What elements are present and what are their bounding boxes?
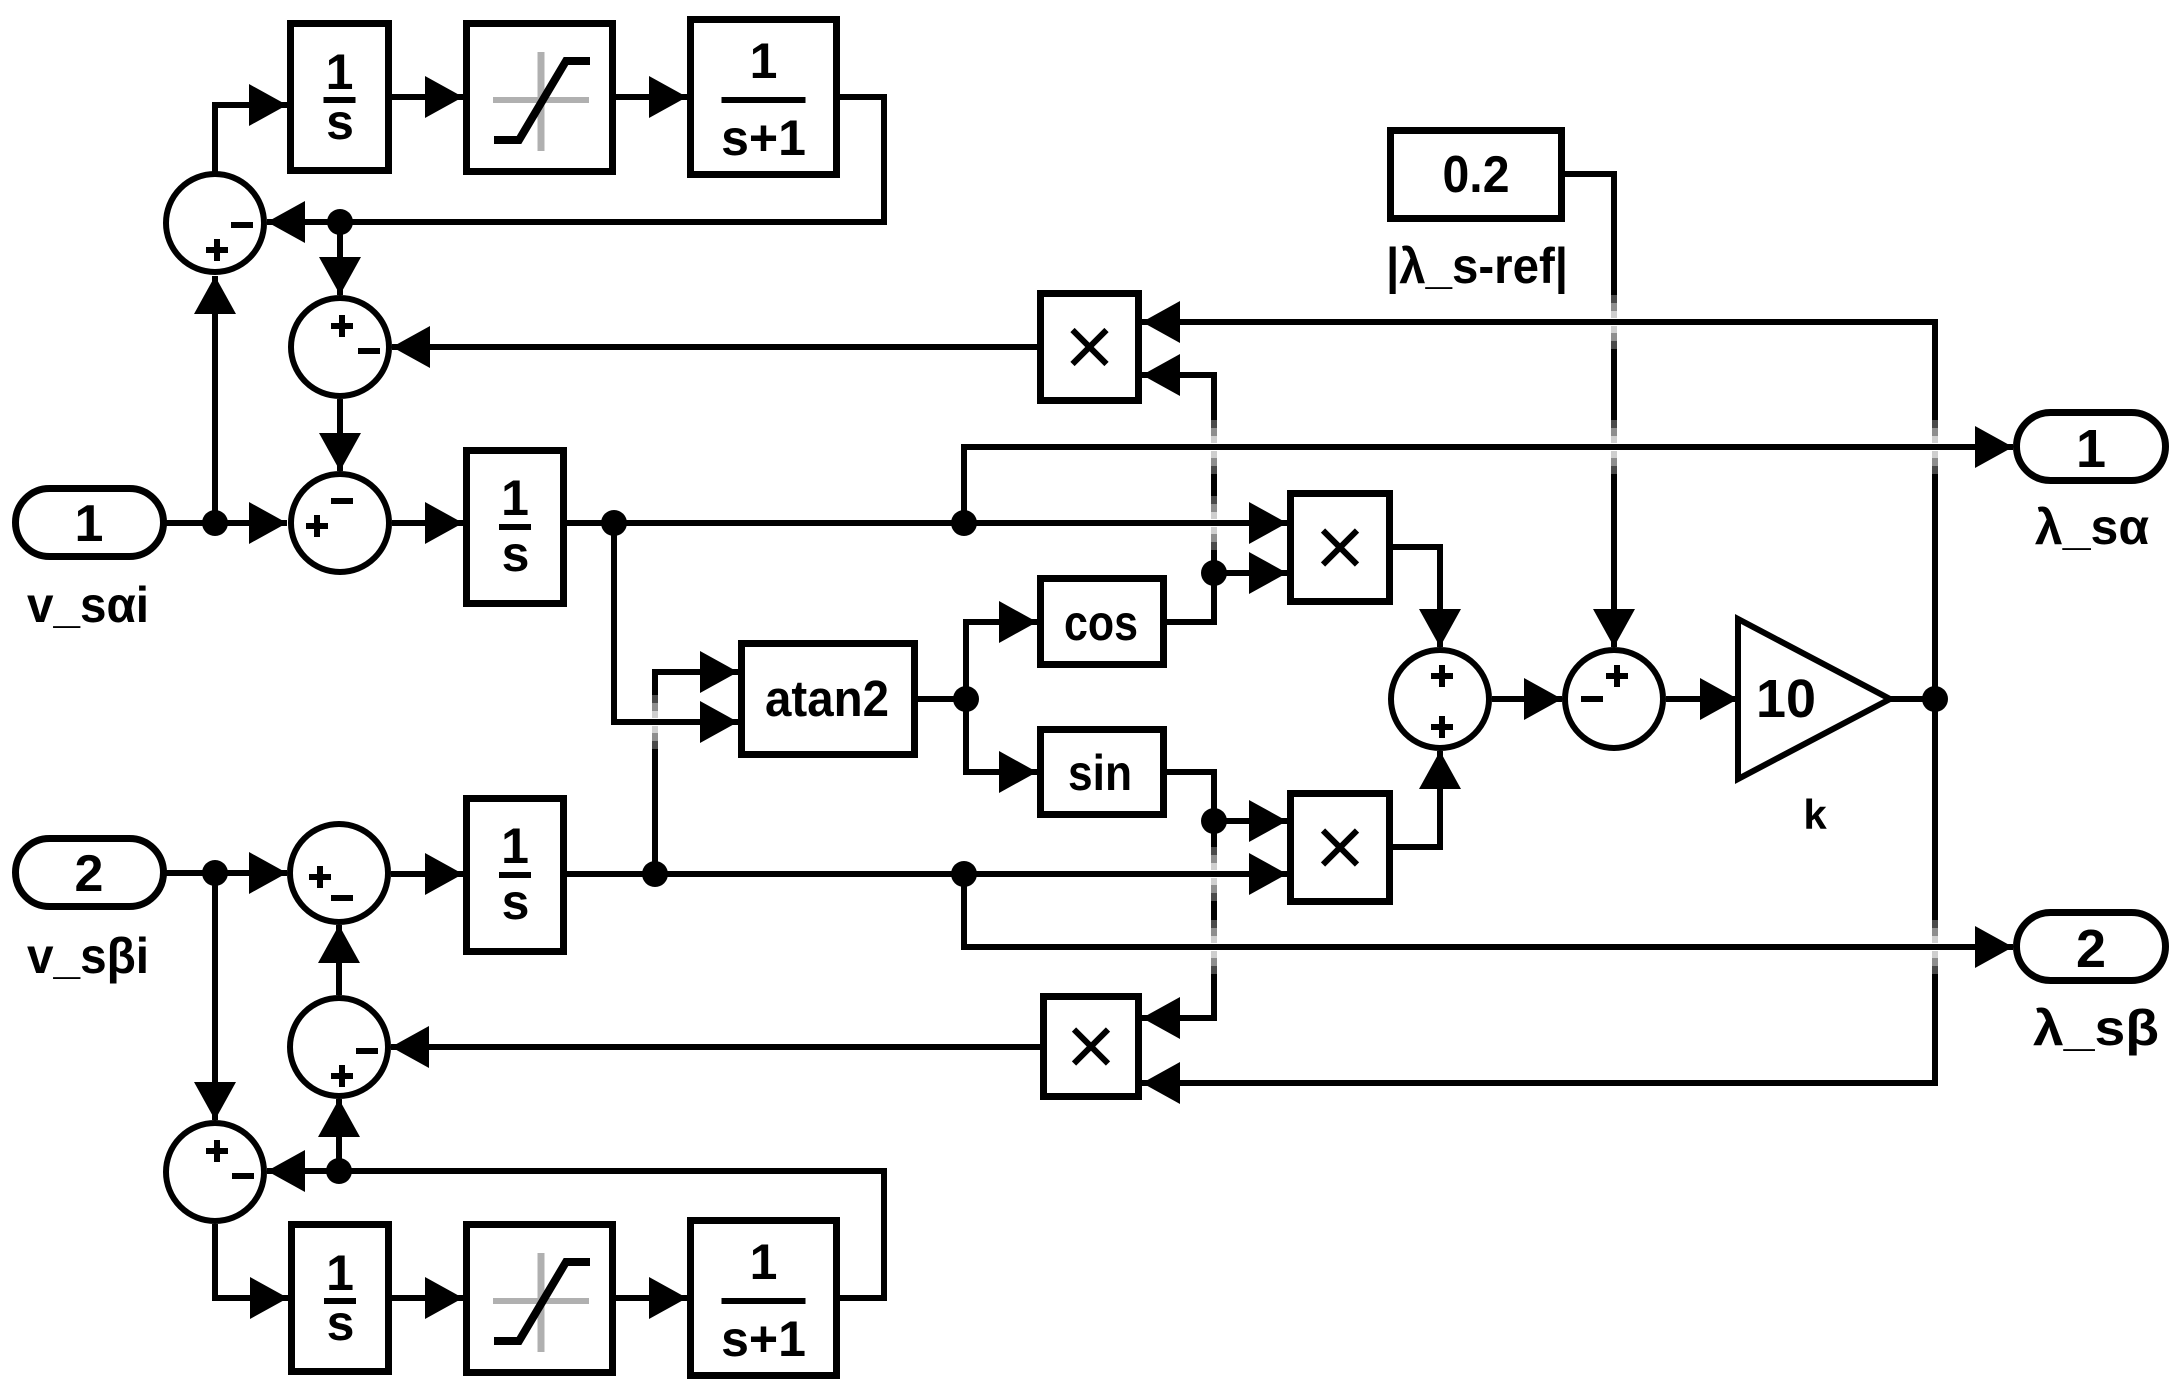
integrator block 1/s (top-left offset loop) <box>291 24 389 171</box>
wire atan2 out <box>918 696 966 702</box>
junction dot sin net <box>1201 808 1227 834</box>
label lambda_sb <box>2033 1000 2159 1056</box>
label k <box>1803 791 1827 838</box>
wire feedback branch to S2 <box>319 222 361 295</box>
wire integrator beta out <box>567 853 1287 895</box>
svg-text:0.2: 0.2 <box>1443 146 1510 204</box>
junction dot beta 2 <box>951 861 977 887</box>
junction dot atan2 <box>953 686 979 712</box>
svg-text:1: 1 <box>2076 419 2106 479</box>
wire bus to P1 in1 <box>1142 301 1935 343</box>
wire saturation to 1/(s+1) (bottom) <box>616 1277 687 1319</box>
wire input1 to S3 <box>160 502 287 544</box>
wire input2 branch down to S8 <box>194 873 236 1120</box>
junction dot gain out <box>1922 686 1948 712</box>
wire S7 to S6 <box>318 925 360 995</box>
svg-text:1: 1 <box>501 470 529 526</box>
integrator block 1/s (beta) <box>467 799 564 952</box>
saturation block (bottom) <box>467 1225 613 1373</box>
wire lambda_sa to output 1 <box>964 426 2013 523</box>
wire sin out net <box>1142 772 1287 1039</box>
wire S2 to S3 <box>319 399 361 471</box>
sum S6 (+-) beta <box>290 824 388 922</box>
junction dot alpha 2 <box>951 510 977 536</box>
svg-text:s: s <box>502 874 530 930</box>
integrator block 1/s (alpha) <box>467 451 564 604</box>
output port 2 oval <box>2017 913 2166 981</box>
sin block <box>1041 730 1164 815</box>
wire feedback 1/(s+1) to S1 <box>267 97 884 243</box>
wire 1/s to saturation (top) <box>392 76 463 118</box>
sum S5 (-+) <box>1565 650 1663 748</box>
wire cos out net <box>1142 354 1287 622</box>
svg-text:10: 10 <box>1756 669 1816 729</box>
svg-text:s: s <box>326 94 354 150</box>
junction dot feedback top <box>327 209 353 235</box>
gain block 10 (k) <box>1738 619 1890 779</box>
sum S2 (+-) <box>291 298 389 396</box>
junction dot input1 <box>202 510 228 536</box>
wire lambda_sb to output 2 <box>964 874 2013 968</box>
transfer fcn block 1/(s+1) (top) <box>691 20 837 175</box>
svg-text:1: 1 <box>750 1234 778 1290</box>
product block P4 (mirrored, bottom) <box>1044 997 1139 1097</box>
label v_sbi <box>27 928 149 984</box>
svg-text:s+1: s+1 <box>721 1311 806 1367</box>
svg-text:sin: sin <box>1068 745 1132 801</box>
wire S5 to gain <box>1666 678 1738 720</box>
label lambda_s-ref <box>1386 238 1568 295</box>
wire saturation to 1/(s+1) (top) <box>616 76 687 118</box>
sum S3 (+-) <box>291 474 389 572</box>
wire atan2 to sin <box>966 699 1037 793</box>
wire integrator alpha out <box>567 502 1287 544</box>
svg-text:1: 1 <box>326 44 354 100</box>
svg-text:v_sβi: v_sβi <box>27 928 149 984</box>
wire feedback branch to S7 <box>318 1099 360 1171</box>
sum S1 (+-) <box>166 174 264 272</box>
svg-text:|λ_s-ref|: |λ_s-ref| <box>1386 238 1568 295</box>
product block P1 (mirrored, top) <box>1041 294 1139 401</box>
svg-text:1: 1 <box>75 495 104 553</box>
output port 1 oval <box>2017 413 2166 481</box>
wire bus right vertical <box>1932 322 1938 1083</box>
svg-text:v_sαi: v_sαi <box>27 577 149 633</box>
wire P1 out to S2 <box>392 326 1037 368</box>
svg-text:1: 1 <box>326 1245 354 1301</box>
sum S7 (-+) beta <box>290 998 388 1096</box>
junction dot cos net <box>1201 560 1227 586</box>
junction dot input2 <box>202 860 228 886</box>
label v_sai <box>27 577 149 633</box>
sum S4 (++) <box>1391 650 1489 748</box>
svg-text:s: s <box>327 1295 355 1351</box>
svg-text:λ_sβ: λ_sβ <box>2033 1000 2159 1056</box>
wire bus to P4 in2 <box>1142 1062 1935 1104</box>
wire 0.2 to S5 <box>1565 174 1635 647</box>
svg-text:atan2: atan2 <box>765 670 889 727</box>
junction dot alpha 1 <box>601 510 627 536</box>
svg-text:1: 1 <box>750 33 778 89</box>
wire feedback 1/(s+1) bottom to S8 <box>267 1150 884 1298</box>
wire S1 out to integrator 1/s <box>215 84 287 174</box>
wire P4 out to S7 <box>391 1026 1040 1068</box>
constant block 0.2 <box>1391 131 1562 219</box>
wire P2 out to S4 <box>1393 547 1461 647</box>
wire S6 to integrator beta <box>391 853 463 895</box>
svg-text:s: s <box>502 526 530 582</box>
wire input1 branch up to S1 <box>194 276 236 523</box>
product block P2 <box>1291 494 1390 602</box>
wire input2 to S6 <box>160 852 287 894</box>
transfer fcn block 1/(s+1) (bottom) <box>691 1221 837 1376</box>
svg-text:2: 2 <box>75 845 104 903</box>
wire atan2 to cos <box>966 601 1037 699</box>
svg-text:k: k <box>1803 791 1827 838</box>
wire 1/s to saturation (bottom) <box>392 1277 463 1319</box>
junction dot feedback bottom <box>326 1158 352 1184</box>
svg-text:1: 1 <box>501 818 529 874</box>
integrator block 1/s (bottom-left offset loop) <box>292 1225 389 1372</box>
wire S4 to S5 <box>1492 678 1562 720</box>
input port 1 oval <box>16 489 164 557</box>
svg-text:λ_sα: λ_sα <box>2035 499 2149 555</box>
cos block <box>1041 579 1164 665</box>
wire S3 to integrator alpha <box>392 502 463 544</box>
wire P3 out to S4 <box>1393 751 1461 847</box>
junction dot beta 1 <box>642 861 668 887</box>
wire gain out <box>1890 696 1935 702</box>
sum S8 (+-) beta <box>166 1123 264 1221</box>
wire alpha to atan2 in2 <box>614 523 738 743</box>
wire beta to atan2 in1 <box>652 651 738 874</box>
saturation block (top) <box>467 24 613 172</box>
wire S8 out to 1/s bottom <box>215 1224 288 1319</box>
svg-text:2: 2 <box>2076 919 2106 979</box>
input port 2 oval <box>16 839 164 907</box>
svg-text:s+1: s+1 <box>721 110 806 166</box>
product block P3 <box>1291 794 1390 902</box>
svg-text:cos: cos <box>1064 595 1138 651</box>
atan2 block <box>742 644 915 755</box>
label lambda_sa <box>2035 499 2149 555</box>
